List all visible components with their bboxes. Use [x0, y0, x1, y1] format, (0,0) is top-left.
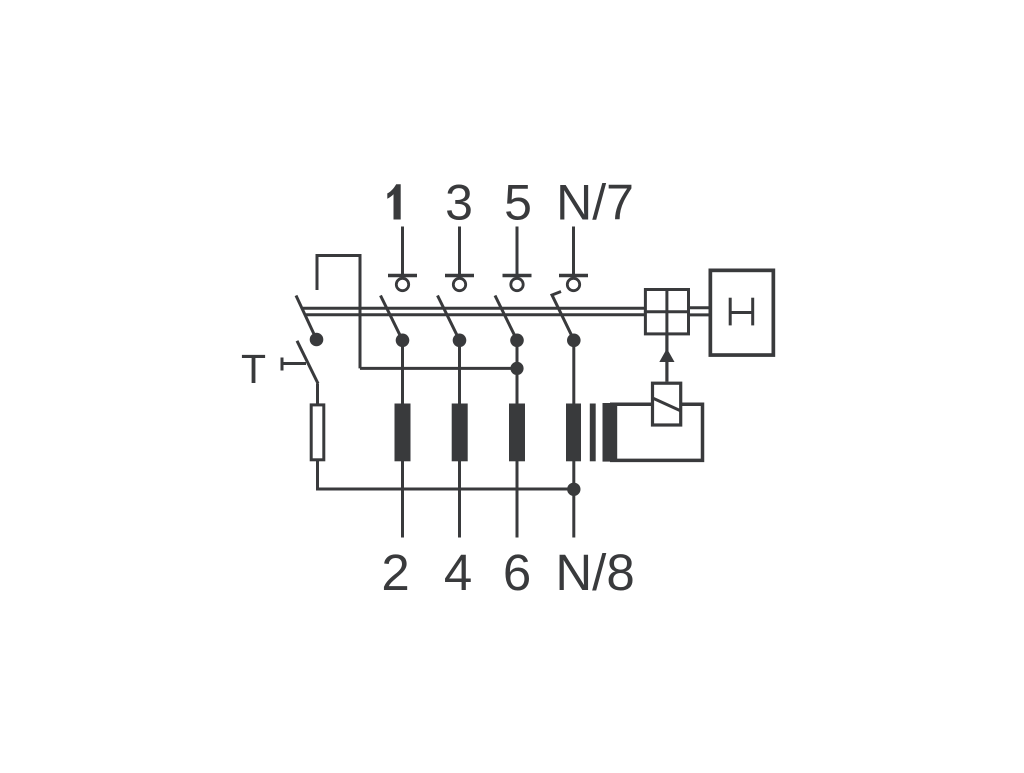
primary winding bar pole 5: [509, 404, 525, 462]
contact dot pole 5: [510, 334, 524, 348]
toroid core bar (thin): [590, 404, 596, 462]
terminal stub N/7: [572, 227, 575, 275]
svg-text:N/8: N/8: [555, 544, 634, 601]
test pole fixed contact wire: [316, 254, 319, 290]
trip relay diagonal: [652, 398, 681, 411]
test button actuator: [284, 362, 307, 365]
svg-text:2: 2: [381, 544, 409, 601]
secondary winding loop: [610, 404, 703, 460]
test resistor: [311, 405, 324, 460]
terminal bar 3: [445, 274, 474, 278]
test button cap: [281, 358, 284, 371]
primary winding bar pole 3: [452, 404, 468, 462]
contact dot test pole: [310, 333, 324, 347]
svg-text:N/7: N/7: [556, 175, 634, 231]
junction dot on pole 3: [510, 362, 523, 375]
primary winding bar pole 1: [395, 404, 411, 462]
svg-text:3: 3: [445, 175, 473, 231]
terminal bar N/7: [559, 274, 588, 278]
terminal circle 1: [396, 278, 408, 290]
hook wire over to pole 3 feed: [317, 256, 360, 369]
wire pole 3 vertical: [458, 340, 461, 537]
svg-text:T: T: [241, 346, 266, 392]
svg-text:4: 4: [444, 544, 472, 601]
H letter left bar: [729, 298, 732, 326]
switch moving contact pole 5: [495, 296, 517, 341]
H letter crossbar: [730, 311, 753, 314]
svg-text:5: 5: [504, 175, 532, 231]
linkage upper line to H relay: [690, 306, 709, 309]
linkage lower line to H relay: [690, 313, 709, 316]
contact dot pole 3: [453, 334, 467, 348]
terminal circle N/7: [567, 278, 579, 290]
terminal circle 5: [511, 278, 523, 290]
sensing coupler square: [645, 290, 688, 334]
relay H box: [710, 270, 773, 355]
H letter right bar: [751, 298, 754, 326]
trip linkage arrowhead: [659, 349, 674, 363]
terminal stub 1: [401, 227, 404, 275]
switch moving contact test pole: [296, 296, 317, 340]
switch moving contact pole N with tick: [552, 292, 574, 341]
switch moving contact pole 3: [438, 296, 460, 341]
test switch moving contact: [297, 341, 318, 384]
secondary winding bar (thick): [603, 403, 618, 462]
terminal stub 3: [458, 227, 461, 275]
switch moving contact pole 1: [381, 296, 403, 341]
primary winding bar pole N: [566, 404, 581, 462]
terminal stub 5: [516, 227, 519, 275]
mechanical linkage bus lower line: [306, 313, 644, 316]
terminal bar 1: [388, 274, 417, 278]
trip linkage arrow shaft: [665, 334, 668, 382]
contact dot pole 1: [396, 334, 410, 348]
wire test switch to resistor and test bus: [318, 384, 574, 490]
junction dot on pole N bottom: [567, 483, 580, 496]
terminal circle 3: [453, 278, 465, 290]
trip relay box: [653, 383, 681, 425]
coupler vertical divider: [665, 288, 668, 335]
wire pole 5 vertical: [516, 340, 519, 537]
wire pole 1 vertical: [401, 340, 404, 537]
label 1: [387, 184, 400, 219]
wire hook to pole3 junction: [360, 367, 517, 370]
coupler horizontal divider: [644, 310, 690, 313]
wire pole N vertical: [572, 340, 575, 537]
terminal bar 5: [503, 274, 532, 278]
contact dot pole N: [567, 334, 581, 348]
mechanical linkage bus upper line: [303, 307, 644, 310]
svg-text:6: 6: [503, 544, 531, 601]
